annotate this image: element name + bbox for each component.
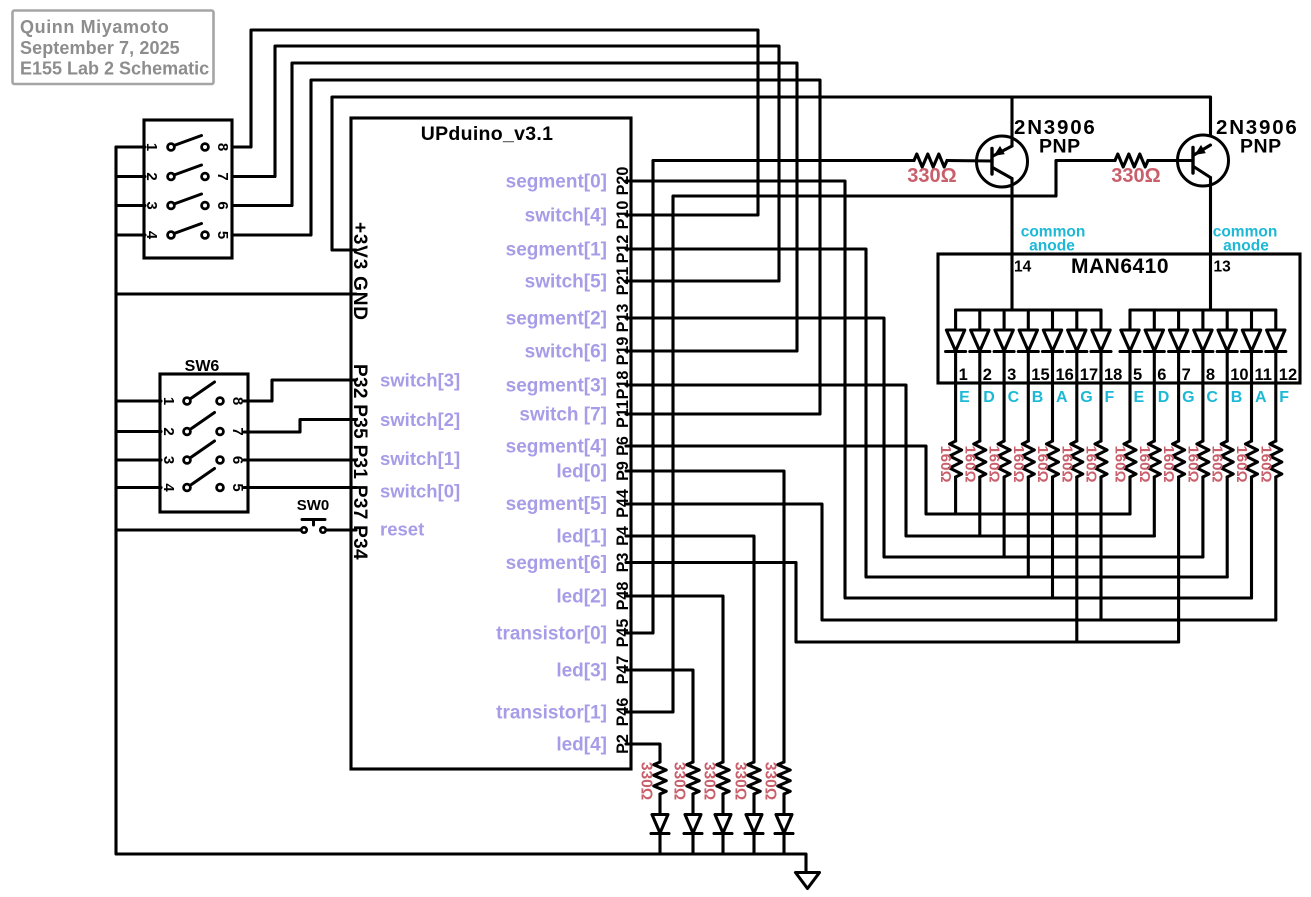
svg-text:switch[6]: switch[6] [525,342,607,363]
svg-text:led[0]: led[0] [556,462,607,483]
wire anode bus digit 1 [956,308,1101,311]
svg-text:G: G [1182,389,1194,406]
wire Q2 base resistor to base [1148,159,1193,162]
svg-text:segment[2]: segment[2] [506,309,607,330]
labels segment/switch/led/transistor right side [496,172,607,756]
LED D10 display segment G [1169,310,1189,352]
node segment letter D [983,389,995,406]
node segment letter E [1134,389,1145,406]
svg-text:330Ω: 330Ω [638,762,655,800]
label Q2 2N3906 PNP [1216,116,1299,158]
switch SW6 pole 2 [184,413,224,435]
svg-text:SW6: SW6 [185,358,220,375]
label pin 1 [959,366,968,384]
wire led[1] net [626,536,754,762]
svg-text:17: 17 [1080,366,1098,384]
LED D13 display segment A [1242,310,1262,352]
svg-text:P21: P21 [614,267,632,296]
svg-text:160Ω: 160Ω [986,445,1003,482]
resistor 330ohm Q2 base [1115,154,1148,167]
resistor 160ohm R13 [1246,441,1258,477]
wire cathode pin 2 down [978,353,981,442]
label 160ohm R11 [1184,445,1201,482]
svg-text:2: 2 [983,366,992,384]
wire LED4 cathode to ground [658,834,661,855]
svg-text:anode: anode [1223,238,1269,255]
wire cathode pin 18 down [1099,353,1102,442]
wire segment[6] net G [626,563,1179,643]
switch SW6 body [160,374,248,512]
LED D4 display segment B [1018,310,1038,352]
svg-text:segment[4]: segment[4] [506,437,607,458]
svg-text:5: 5 [1133,366,1142,384]
wire led[0] net [626,471,784,762]
label switch[3] [380,370,460,391]
label 160ohm R2 [961,445,978,482]
label 330ohm led[1] [732,762,749,800]
svg-text:160Ω: 160Ω [1083,445,1100,482]
label 160ohm R12 [1209,445,1226,482]
switch DIP1 pole 2 [168,165,209,180]
wire cathode pin 8 down [1201,353,1204,442]
label pin 13 [1214,259,1232,276]
label 160ohm R1 [937,445,954,482]
wire switch[1] net (SW6 pin6 to P31) [244,458,356,461]
switch DIP1 pole 1 [168,136,209,151]
label 160ohm R7 [1083,445,1100,482]
pin +3V3 GND names [349,222,370,321]
LED D3 display segment C [994,310,1014,352]
transistor Q1 2N3906 PNP [977,136,1028,187]
LED D6 display segment G [1067,310,1087,352]
resistor 160ohm R12 [1221,441,1233,477]
svg-text:16: 16 [1056,366,1074,384]
svg-text:D: D [983,389,995,406]
label pin 17 [1080,366,1098,384]
label 160ohm R4 [1010,445,1027,482]
resistor 160ohm R6 [1071,441,1083,477]
svg-text:330Ω: 330Ω [907,165,956,187]
label common anode left [1021,224,1086,255]
wire SW6 pin 1 to ground rail [116,399,161,402]
wire segment[4] net E [626,446,1130,514]
node segment letter C [1206,389,1218,406]
node segment letter C [1008,389,1020,406]
label switch[1] [380,448,460,469]
LED2 [714,815,732,834]
resistor 160ohm R4 [1022,441,1034,477]
LED D2 display segment D [970,310,990,352]
resistor 160ohm R3 [998,441,1010,477]
resistor 330ohm led[0] [778,762,790,794]
svg-text:7: 7 [214,172,231,180]
wire SW0 right to reset pin P34 [326,528,356,531]
resistor 160ohm R5 [1047,441,1059,477]
wire cathode pin 17 down [1075,353,1078,442]
node segment letter E [959,389,970,406]
switch SW6 pole 1 [184,382,224,404]
wire GND pin to rail [116,292,356,295]
pin P32 P35 P31 P37 P34 names [349,364,370,560]
label SW6 [185,358,220,375]
wire R7 to segment F line [1099,477,1102,620]
svg-text:segment[1]: segment[1] [506,240,607,261]
wire switch[7] net (DIP1 pin5 to P11) [234,80,820,414]
svg-text:330Ω: 330Ω [1111,165,1160,187]
wire resistor to LED3 [691,794,694,814]
wire led[4] net [626,744,660,762]
svg-text:330Ω: 330Ω [732,762,749,800]
node segment letter F [1279,389,1289,406]
wire cathode pin 6 down [1153,353,1156,442]
label pin 3 [1007,366,1016,384]
LED D5 display segment A [1043,310,1063,352]
svg-text:PNP: PNP [1240,136,1282,158]
label pin 16 [1056,366,1074,384]
wire DIP1 pin 1 to ground rail [116,145,145,148]
wire transistor[1] net to Q2 base resistor [626,161,1115,713]
wire switch[0] net (SW6 pin5 to P37) [244,486,356,489]
svg-text:SW0: SW0 [297,497,330,514]
svg-text:3: 3 [1007,366,1016,384]
svg-text:6: 6 [214,201,231,209]
svg-text:C: C [1008,389,1020,406]
label pin 15 [1031,366,1049,384]
wire segment[0] net A [626,181,1252,598]
LED4 [651,815,669,834]
svg-text:September 7, 2025: September 7, 2025 [20,38,180,58]
label switch[2] [380,409,460,430]
wire DIP1 pin 4 to ground rail [116,233,145,236]
node segment letter A [1255,389,1267,406]
resistor 160ohm R14 [1270,441,1282,477]
label 330ohm led[4] [638,762,655,800]
wire GND rail left and bottom [116,147,806,872]
svg-text:led[3]: led[3] [556,661,607,682]
wire cathode pin 12 down [1274,353,1277,442]
label switch[0] [380,481,460,502]
label 330ohm led[2] [701,762,718,800]
switch SW6 pin numbers 1-8 [160,397,246,493]
wire cathode pin 11 down [1250,353,1253,442]
wire R9 to segment D line [1153,477,1156,536]
svg-text:12: 12 [1279,366,1297,384]
label UPduino_v3.1 [421,123,554,145]
svg-text:15: 15 [1031,366,1049,384]
svg-text:reset: reset [380,519,424,540]
svg-text:160Ω: 160Ω [937,445,954,482]
label pin 10 [1230,366,1248,384]
label reset [380,519,424,540]
wire resistor to LED4 [658,794,661,814]
svg-text:C: C [1206,389,1218,406]
svg-text:3: 3 [160,456,177,464]
wire switch[2] net (SW6 pin7 to P35) [244,420,356,433]
op-amp U1 UPduino_v3.1 body [351,118,631,769]
svg-text:switch[0]: switch[0] [380,481,460,502]
svg-text:B: B [1231,389,1243,406]
svg-text:B: B [1032,389,1044,406]
label 330ohm led[3] [671,762,688,800]
label 160ohm R14 [1257,445,1274,482]
node segment letter B [1032,389,1044,406]
wire SW6 pin 3 to ground rail [116,458,161,461]
node segment letter G [1182,389,1194,406]
svg-text:18: 18 [1104,366,1122,384]
wire R1 to segment E line [954,477,957,514]
label 330ohm Q1 [907,165,956,187]
label 160ohm R8 [1112,445,1129,482]
switch DIP1 pole 3 [168,194,209,209]
svg-text:330Ω: 330Ω [671,762,688,800]
resistor 160ohm R10 [1173,441,1185,477]
display U2 MAN6410 body [938,254,1300,383]
svg-text:D: D [1158,389,1170,406]
wire switch[5] net (DIP1 pin7 to P21) [234,46,779,281]
wire resistor to LED2 [721,794,724,814]
svg-text:switch[3]: switch[3] [380,370,460,391]
wire anode bus digit 2 [1130,308,1276,311]
node segment letter D [1158,389,1170,406]
wire led[3] net [626,670,693,762]
node segment letter B [1231,389,1243,406]
svg-text:E: E [1134,389,1145,406]
svg-text:A: A [1056,389,1068,406]
svg-text:160Ω: 160Ω [1184,445,1201,482]
node segment letter F [1105,389,1115,406]
wire R13 to segment A line [1250,477,1253,598]
svg-text:160Ω: 160Ω [1233,445,1250,482]
wire Q1 base resistor to base [947,159,992,163]
svg-text:P10: P10 [614,201,632,230]
svg-text:PNP: PNP [1039,136,1081,158]
label pin 12 [1279,366,1297,384]
LED0 [775,815,793,834]
resistor 160ohm R8 [1124,441,1136,477]
svg-text:10: 10 [1230,366,1248,384]
wire Q1 collector to MAN6410 pin 14 [1010,179,1013,311]
LED D7 display segment F [1091,310,1111,352]
label Q1 2N3906 PNP [1014,116,1097,158]
label pin 18 [1104,366,1122,384]
label 160ohm R5 [1034,445,1051,482]
wire cathode pin 7 down [1177,353,1180,442]
svg-text:switch[5]: switch[5] [525,272,607,293]
wire transistor[0] net to Q1 base resistor [626,161,914,634]
node segment letter A [1056,389,1068,406]
wire R3 to segment C line [1003,477,1006,557]
wire LED0 cathode to ground [782,834,785,855]
wire cathode pin 16 down [1051,353,1054,442]
wire R2 to segment D line [978,477,981,536]
svg-text:160Ω: 160Ω [1112,445,1129,482]
wire cathode pin 5 down [1128,353,1131,442]
svg-text:160Ω: 160Ω [1010,445,1027,482]
LED D14 display segment F [1266,310,1286,352]
svg-text:MAN6410: MAN6410 [1071,255,1169,278]
wire DIP1 pin 3 to ground rail [116,204,145,207]
svg-text:P11: P11 [614,400,632,428]
wire R4 to segment B line [1027,477,1030,577]
label 160ohm R3 [986,445,1003,482]
wire cathode pin 10 down [1226,353,1229,442]
svg-text:5: 5 [214,231,231,239]
wire R6 to segment G line [1075,477,1078,642]
svg-text:330Ω: 330Ω [762,762,779,800]
label 330ohm Q2 [1111,165,1160,187]
svg-text:led[2]: led[2] [556,587,607,608]
wire led[2] net [626,596,723,762]
wire LED3 cathode to ground [691,834,694,855]
svg-text:F: F [1279,389,1289,406]
svg-text:A: A [1255,389,1267,406]
wire SW0 left to ground rail [116,528,301,531]
svg-text:160Ω: 160Ω [1209,445,1226,482]
svg-text:segment[3]: segment[3] [506,376,607,397]
svg-text:160Ω: 160Ω [1257,445,1274,482]
svg-text:160Ω: 160Ω [1160,445,1177,482]
svg-text:330Ω: 330Ω [701,762,718,800]
wire SW6 pin 4 to ground rail [116,486,161,489]
wire Q2 collector to MAN6410 pin 13 [1209,178,1212,311]
wire cathode pin 15 down [1027,353,1030,442]
wire resistor to LED1 [752,794,755,814]
svg-text:4: 4 [160,483,177,492]
label pin 14 [1014,259,1032,276]
svg-text:160Ω: 160Ω [961,445,978,482]
title block [13,11,214,85]
svg-text:segment[5]: segment[5] [506,494,607,515]
LED D9 display segment D [1144,310,1164,352]
resistor 160ohm R9 [1148,441,1160,477]
switch SW6 pole 3 [184,441,224,463]
pin names right side P20..P2 [614,167,632,754]
label 160ohm R10 [1160,445,1177,482]
switch DIP1 pole 4 [168,224,209,239]
wire R14 to segment F line [1274,477,1277,620]
resistor 160ohm R1 [950,441,962,477]
wire R8 to segment E line [1128,477,1131,514]
switch DIP1 pin numbers 1-8 [143,143,231,240]
svg-text:switch[1]: switch[1] [380,448,460,469]
label 160ohm R6 [1058,445,1075,482]
wire segment[1] net B [626,249,1227,577]
LED D8 display segment E [1120,310,1140,352]
svg-text:14: 14 [1014,259,1032,276]
LED D11 display segment C [1193,310,1213,352]
wire segment[2] net C [626,318,1203,557]
wire SW6 pin 2 to ground rail [116,430,161,433]
wire LED2 cathode to ground [721,834,724,855]
ground symbol [796,873,820,889]
LED1 [745,815,763,834]
resistor 330ohm led[3] [687,762,699,794]
resistor 330ohm led[4] [654,762,666,794]
wire switch[3] net (SW6 pin8 to P32) [244,380,356,401]
switch SW6 pole 4 [184,469,224,491]
svg-text:8: 8 [1206,366,1215,384]
wire resistor to LED0 [782,794,785,814]
svg-text:G: G [1080,389,1092,406]
label 160ohm R9 [1136,445,1153,482]
pushbutton SW0 [297,497,330,533]
wire R10 to segment G line [1177,477,1180,642]
resistor 160ohm R2 [974,441,986,477]
svg-text:13: 13 [1214,259,1232,276]
svg-text:8: 8 [214,143,231,151]
svg-text:UPduino_v3.1: UPduino_v3.1 [421,123,554,145]
svg-text:1: 1 [160,397,177,405]
label 160ohm R13 [1233,445,1250,482]
wire DIP1 pin 2 to ground rail [116,175,145,178]
svg-text:transistor[0]: transistor[0] [496,624,607,645]
wire R11 to segment C line [1201,477,1204,557]
resistor 330ohm led[2] [717,762,729,794]
svg-text:led[1]: led[1] [556,527,607,548]
label pin 6 [1157,366,1166,384]
wire cathode pin 3 down [1003,353,1006,442]
svg-text:11: 11 [1255,366,1272,384]
label pin 11 [1255,366,1272,384]
svg-text:160Ω: 160Ω [1058,445,1075,482]
wire R5 to segment A line [1051,477,1054,598]
svg-text:6: 6 [1157,366,1166,384]
svg-text:2: 2 [160,427,177,435]
svg-text:transistor[1]: transistor[1] [496,703,607,724]
LED3 [684,815,702,834]
svg-text:P19: P19 [614,337,632,366]
svg-text:7: 7 [1182,366,1191,384]
svg-text:1: 1 [959,366,968,384]
wire +3V3 net (pin to transistor emitters) [332,97,1211,250]
wire R12 to segment B line [1226,477,1229,577]
node segment letter G [1080,389,1092,406]
svg-text:segment[0]: segment[0] [506,172,607,193]
resistor 330ohm Q1 base [914,154,947,167]
wire LED1 cathode to ground [752,834,755,855]
wire switch[4] net (DIP1 pin8 to P10) [234,30,758,215]
svg-text:+3V3 GND: +3V3 GND [349,222,370,321]
LED D12 display segment B [1217,310,1237,352]
svg-text:segment[6]: segment[6] [506,553,607,574]
svg-text:switch [7]: switch [7] [519,405,607,426]
wire switch[6] net (DIP1 pin6 to P19) [234,63,797,351]
wire segment[5] net F [626,504,1276,620]
label pin 8 [1206,366,1215,384]
svg-text:P32 P35 P31 P37 P34: P32 P35 P31 P37 P34 [349,364,370,560]
label common anode right [1213,224,1278,255]
svg-text:E: E [959,389,970,406]
svg-text:F: F [1105,389,1115,406]
resistor 330ohm led[1] [748,762,760,794]
label MAN6410 [1071,255,1169,278]
label pin 5 [1133,366,1142,384]
label pin 7 [1182,366,1191,384]
LED D1 display segment E [946,310,966,352]
label 330ohm led[0] [762,762,779,800]
svg-text:E155 Lab 2 Schematic: E155 Lab 2 Schematic [20,59,209,79]
svg-text:160Ω: 160Ω [1034,445,1051,482]
transistor Q2 2N3906 PNP [1178,135,1229,186]
switch DIP1 body [144,120,232,258]
svg-text:anode: anode [1029,238,1075,255]
resistor 160ohm R11 [1197,441,1209,477]
wire cathode pin 1 down [954,353,957,442]
svg-text:160Ω: 160Ω [1136,445,1153,482]
svg-text:switch[4]: switch[4] [525,206,607,227]
label pin 2 [983,366,992,384]
resistor 160ohm R7 [1095,441,1107,477]
